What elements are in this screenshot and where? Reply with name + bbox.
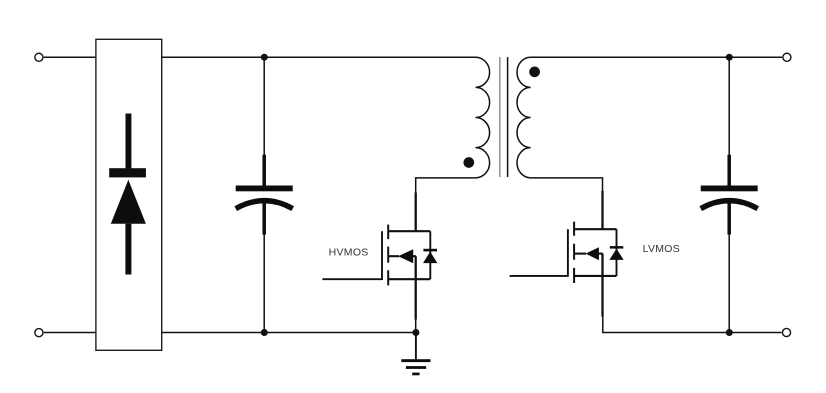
svg-text:LVMOS: LVMOS — [643, 243, 680, 255]
svg-text:HVMOS: HVMOS — [329, 247, 369, 259]
